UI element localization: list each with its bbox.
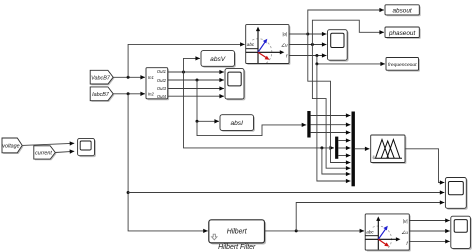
svg-text:Out2: Out2 xyxy=(157,78,167,83)
svg-text:frequenceout: frequenceout xyxy=(388,62,417,68)
subsystem block xyxy=(146,68,169,101)
svg-text:|u|: |u| xyxy=(282,32,287,37)
wire u-angle to scope xyxy=(289,44,326,46)
svg-text:∠u: ∠u xyxy=(281,42,288,47)
svg-text:abc: abc xyxy=(366,229,374,234)
wire Out2 route to demux D1 xyxy=(197,121,306,135)
wire branch to mux input 9 xyxy=(322,148,351,174)
svg-text:abc: abc xyxy=(247,42,255,47)
wire mux to fuzzy xyxy=(355,148,370,150)
wire fuzzy to scope right1 xyxy=(405,149,444,183)
svg-text:Out3: Out3 xyxy=(157,86,167,91)
node junction freq xyxy=(315,54,318,57)
node junction absI branch xyxy=(196,120,199,123)
block absV xyxy=(201,51,236,68)
from tag current xyxy=(34,146,57,161)
node junction hilbert out xyxy=(295,229,298,232)
wire hilbert out to phasor U2 xyxy=(265,230,365,232)
wire VabcB7 to In1 xyxy=(113,76,145,78)
node junction VabcB7 xyxy=(127,76,130,79)
svg-text:phaseout: phaseout xyxy=(388,30,416,37)
node junction u-angle xyxy=(311,43,314,46)
node junction on IabcB7 drop xyxy=(127,191,130,194)
node junction Out1 xyxy=(182,71,185,74)
to workspace phaseout xyxy=(385,27,421,39)
wire freq drop to mux input 10 xyxy=(317,64,351,181)
phasor block U1 abc to magnitude-angle xyxy=(246,25,291,66)
wire VabcB7 riser to abc input of phasor U1 xyxy=(128,44,245,77)
svg-text:voltage: voltage xyxy=(2,144,19,150)
demux D2 out wires to mux xyxy=(338,140,350,142)
wire Out1 drop to demux D2 xyxy=(184,72,335,148)
wire riser to absV xyxy=(184,58,200,72)
demux D2 xyxy=(335,137,338,159)
node junction IabcB7 xyxy=(127,92,130,95)
block absI xyxy=(220,115,255,132)
node junction Out2 xyxy=(196,79,199,82)
svg-text:absV: absV xyxy=(210,56,226,63)
hilbert filter block xyxy=(209,220,266,245)
wire IabcB7 to In2 xyxy=(113,93,145,95)
mux M1 xyxy=(352,112,355,187)
svg-text:Hilbert: Hilbert xyxy=(227,229,248,236)
scope 3-input top xyxy=(328,30,349,62)
svg-text:|u|: |u| xyxy=(403,219,408,224)
wire hilbert branch to scope right1 input3 xyxy=(296,203,444,231)
phasor block U2 abc to magnitude-angle xyxy=(365,214,411,252)
svg-text:In1: In1 xyxy=(148,75,154,80)
wire u-mag to scope xyxy=(289,33,326,35)
to workspace absout xyxy=(385,5,421,16)
wire U2 u-angle to scope right2 xyxy=(409,230,449,232)
to workspace frequenceout xyxy=(386,58,420,72)
wire U2 freq to scope right2 xyxy=(409,240,449,242)
wire IabcB7 drop to Hilbert input xyxy=(128,94,208,231)
svg-text:absout: absout xyxy=(392,8,411,15)
svg-text:Out4: Out4 xyxy=(157,94,167,99)
scope voltage-current xyxy=(78,138,96,157)
wire U2 u-mag to scope right2 xyxy=(409,220,449,222)
from tag voltage xyxy=(2,138,23,154)
wire current to scope xyxy=(55,151,74,152)
svg-text:IabcB7: IabcB7 xyxy=(92,92,110,98)
fuzzy logic controller block xyxy=(371,135,407,164)
svg-text:In2: In2 xyxy=(148,91,154,96)
svg-text:Hilbert Filter: Hilbert Filter xyxy=(218,244,256,251)
wire Out2 to scope xyxy=(168,79,224,81)
wire Out4 to scope xyxy=(168,95,224,97)
svg-text:VabcB7: VabcB7 xyxy=(91,75,111,81)
svg-text:absI: absI xyxy=(230,120,243,127)
scope right2 xyxy=(451,216,472,250)
wire Out3 to scope xyxy=(168,88,224,90)
node junction freq drop xyxy=(315,62,318,65)
scope 4-input xyxy=(225,69,245,101)
wire Out1 to scope xyxy=(168,71,224,73)
from tag IabcB7 xyxy=(90,87,114,102)
wire long to scope right1 input2 xyxy=(128,192,444,194)
node junction u-mag xyxy=(306,33,309,36)
wire freq to scope xyxy=(289,55,326,57)
demux D1 out wires to mux xyxy=(311,115,351,117)
from tag VabcB7 xyxy=(90,70,114,85)
svg-text:∠u: ∠u xyxy=(401,230,408,235)
node junction on 148 wire xyxy=(320,146,323,149)
wire voltage to scope xyxy=(22,143,74,145)
wire to absout xyxy=(308,10,384,34)
wire u-angle drop to mux input 8 xyxy=(312,45,350,169)
wire Out2 drop to absI xyxy=(197,80,219,121)
wire u-mag drop to mux input 7 xyxy=(308,34,351,163)
wire to frequenceout xyxy=(317,56,385,64)
wire to phaseout xyxy=(312,20,384,44)
svg-text:Out1: Out1 xyxy=(157,69,166,74)
svg-text:current: current xyxy=(35,151,52,157)
demux D1 xyxy=(307,111,310,138)
scope right1 xyxy=(445,178,467,210)
